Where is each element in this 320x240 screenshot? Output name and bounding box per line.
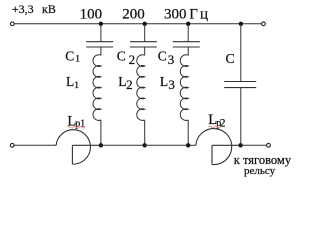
svg-text:C: C bbox=[65, 49, 74, 64]
label C2 bbox=[117, 48, 135, 67]
svg-text:3: 3 bbox=[168, 77, 175, 92]
wire branch C bottom bbox=[240, 88, 242, 146]
top rail wire bbox=[12, 23, 263, 25]
node junction dot bottom 4 bbox=[238, 143, 242, 147]
label L1 bbox=[66, 74, 79, 91]
node junction dot bottom 2 bbox=[143, 143, 147, 147]
bottom-left terminal bbox=[10, 143, 14, 147]
svg-text:1: 1 bbox=[75, 54, 80, 64]
reactor Lp2 bbox=[196, 129, 241, 165]
wire branch3 mid bbox=[187, 47, 189, 56]
node junction dot top 1 bbox=[99, 22, 103, 26]
reactor Lp1 bbox=[56, 130, 101, 164]
top-left terminal bbox=[10, 22, 14, 26]
wire branch2 bottom bbox=[144, 120, 146, 145]
bottom-right terminal bbox=[267, 143, 271, 147]
capacitor C2 bbox=[130, 42, 157, 47]
wire bottom mid 2 bbox=[145, 144, 189, 146]
svg-text:3: 3 bbox=[168, 52, 175, 67]
capacitor C bbox=[224, 82, 256, 88]
svg-text:2: 2 bbox=[220, 118, 226, 130]
svg-text:L: L bbox=[66, 74, 74, 89]
svg-text:L: L bbox=[160, 74, 168, 89]
node junction dot top 4 bbox=[239, 22, 243, 26]
inductor L1 bbox=[93, 55, 101, 121]
label C3 bbox=[158, 48, 175, 67]
wire branch1 bottom bbox=[100, 120, 102, 145]
svg-text:200: 200 bbox=[122, 7, 145, 23]
wire branch3 top bbox=[187, 24, 189, 42]
inductor L2 bbox=[137, 55, 145, 121]
wire branch1 top bbox=[100, 24, 102, 42]
label Lp2 bbox=[208, 112, 226, 130]
label Lp1 bbox=[67, 113, 85, 129]
wire branch C top bbox=[240, 24, 242, 82]
wire branch2 top bbox=[144, 24, 146, 42]
spellcheck underline Lp2 bbox=[208, 126, 220, 127]
label L3 bbox=[160, 74, 175, 92]
label C1 bbox=[65, 49, 80, 65]
wire bottom mid 3 bbox=[188, 144, 196, 146]
svg-text:+3,3: +3,3 bbox=[12, 2, 34, 16]
svg-text:кВ: кВ bbox=[42, 2, 56, 16]
svg-text:2: 2 bbox=[126, 77, 133, 92]
spellcheck underline Lp1 bbox=[68, 127, 85, 128]
svg-text:C: C bbox=[226, 51, 235, 66]
label L2 bbox=[118, 74, 132, 92]
node junction dot bottom 1 bbox=[99, 143, 103, 147]
capacitor C1 bbox=[86, 42, 113, 47]
wire branch2 mid bbox=[144, 47, 146, 56]
wire branch3 bottom bbox=[187, 120, 189, 145]
svg-text:300: 300 bbox=[164, 7, 187, 23]
top-right terminal bbox=[262, 22, 266, 26]
wire bottom left bbox=[14, 144, 56, 146]
svg-text:C: C bbox=[117, 48, 126, 63]
svg-text:C: C bbox=[158, 48, 167, 63]
svg-text:рельсу: рельсу bbox=[244, 165, 276, 177]
label к тяговому рельсу bbox=[234, 153, 292, 177]
inductor L3 bbox=[180, 55, 188, 121]
wire bottom mid 1 bbox=[101, 144, 145, 146]
wire branch1 mid bbox=[100, 47, 102, 56]
wire bottom right bbox=[241, 144, 267, 146]
svg-text:1: 1 bbox=[74, 81, 79, 91]
svg-text:2: 2 bbox=[129, 52, 136, 67]
svg-text:100: 100 bbox=[80, 7, 103, 23]
capacitor C3 bbox=[173, 42, 200, 47]
node junction dot top 2 bbox=[143, 22, 147, 26]
svg-text:Гц: Гц bbox=[189, 7, 210, 23]
node junction dot bottom 3 bbox=[186, 143, 190, 147]
node junction dot top 3 bbox=[186, 22, 190, 26]
